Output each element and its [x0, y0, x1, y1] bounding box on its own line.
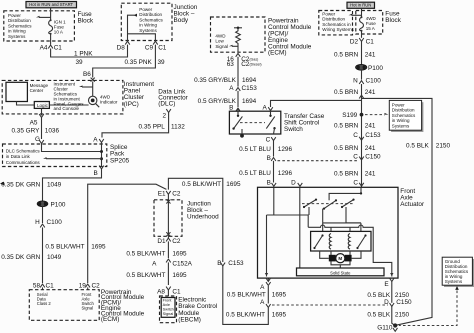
svg-text:0.5 BLK: 0.5 BLK — [367, 312, 390, 319]
svg-text:C153: C153 — [365, 132, 381, 139]
svg-text:D2: D2 — [350, 39, 359, 46]
svg-text:C100: C100 — [366, 78, 382, 85]
svg-text:241: 241 — [365, 122, 376, 129]
svg-text:Communications: Communications — [6, 160, 41, 165]
svg-text:B: B — [94, 170, 98, 177]
svg-text:Switch: Switch — [163, 307, 174, 311]
svg-text:A: A — [260, 284, 265, 291]
svg-text:Hot in RUN and START: Hot in RUN and START — [29, 2, 73, 7]
svg-text:C1: C1 — [366, 39, 375, 46]
svg-text:Systems: Systems — [8, 34, 26, 39]
svg-text:D: D — [291, 179, 296, 186]
svg-text:H: H — [35, 219, 40, 226]
svg-text:1694: 1694 — [242, 98, 257, 105]
svg-text:0.5 BRN: 0.5 BRN — [334, 89, 359, 96]
svg-text:D: D — [384, 299, 389, 306]
svg-text:B: B — [229, 105, 233, 112]
svg-text:Class 2: Class 2 — [37, 301, 52, 306]
svg-text:1049: 1049 — [47, 182, 62, 189]
svg-text:0.5 BLK/WHT: 0.5 BLK/WHT — [126, 250, 165, 257]
svg-text:C: C — [353, 132, 358, 139]
svg-text:0.5 BLK: 0.5 BLK — [406, 143, 429, 150]
svg-text:(Gas): (Gas) — [250, 58, 259, 62]
svg-text:Indicator: Indicator — [100, 100, 118, 105]
svg-text:1049: 1049 — [47, 254, 62, 261]
svg-text:58: 58 — [33, 282, 41, 289]
svg-text:Underhood: Underhood — [187, 214, 219, 221]
svg-text:(DLC): (DLC) — [158, 100, 175, 107]
svg-text:15 A: 15 A — [366, 26, 376, 31]
svg-text:Systems: Systems — [445, 279, 463, 284]
svg-text:P100: P100 — [51, 201, 66, 208]
svg-text:Solid State: Solid State — [330, 271, 351, 276]
svg-text:Signal: Signal — [163, 312, 174, 316]
svg-text:19: 19 — [79, 282, 87, 289]
svg-text:241: 241 — [365, 51, 376, 58]
svg-text:1694: 1694 — [242, 77, 257, 84]
svg-text:2150: 2150 — [395, 312, 410, 319]
svg-text:B: B — [267, 180, 271, 187]
svg-text:P100: P100 — [368, 65, 383, 72]
svg-text:C2: C2 — [92, 282, 101, 289]
svg-text:0.5 BRN: 0.5 BRN — [334, 122, 359, 129]
svg-text:Front: Front — [163, 299, 173, 303]
svg-text:39: 39 — [158, 59, 166, 66]
svg-text:0.5 BLK/WHT: 0.5 BLK/WHT — [45, 243, 84, 250]
svg-text:and Console: and Console — [54, 106, 80, 111]
svg-text:A: A — [260, 299, 265, 306]
svg-text:C153: C153 — [228, 260, 244, 267]
svg-text:DLC Schematics: DLC Schematics — [6, 149, 41, 154]
svg-text:D8: D8 — [117, 44, 126, 51]
svg-text:Switch: Switch — [284, 126, 303, 133]
svg-text:Logic: Logic — [37, 103, 49, 108]
svg-text:D1: D1 — [157, 238, 166, 245]
svg-text:Axle: Axle — [163, 303, 170, 307]
svg-text:0.35 GRY: 0.35 GRY — [11, 127, 40, 134]
svg-text:1695: 1695 — [226, 181, 241, 188]
svg-text:1695: 1695 — [272, 311, 287, 318]
svg-text:1 PNK: 1 PNK — [74, 51, 93, 58]
svg-text:1296: 1296 — [278, 146, 293, 153]
svg-text:B: B — [217, 260, 221, 267]
svg-text:1695: 1695 — [172, 250, 187, 257]
svg-text:10 A: 10 A — [54, 29, 64, 34]
svg-text:A: A — [263, 105, 268, 112]
svg-text:C1: C1 — [172, 288, 181, 295]
svg-text:Signal: Signal — [215, 44, 228, 49]
svg-text:0.5 BRN: 0.5 BRN — [334, 171, 359, 178]
svg-text:Block: Block — [385, 17, 401, 24]
svg-text:C9: C9 — [145, 44, 154, 51]
svg-text:2150: 2150 — [395, 292, 410, 299]
svg-text:1695: 1695 — [272, 291, 287, 298]
svg-text:0.5 LT BLU: 0.5 LT BLU — [239, 170, 271, 177]
svg-text:E1: E1 — [158, 191, 166, 198]
svg-text:Signal: Signal — [82, 306, 94, 311]
svg-text:0.5 BLK/WHT: 0.5 BLK/WHT — [182, 181, 221, 188]
svg-text:2: 2 — [162, 113, 166, 120]
svg-text:A8: A8 — [157, 288, 165, 295]
svg-text:0.5 BLK: 0.5 BLK — [367, 292, 390, 299]
svg-text:C100: C100 — [47, 219, 63, 226]
svg-text:0.5 BRN: 0.5 BRN — [334, 51, 359, 58]
svg-text:C1: C1 — [54, 44, 63, 51]
svg-text:M: M — [338, 256, 342, 261]
svg-text:(Diesel): (Diesel) — [250, 63, 262, 67]
svg-text:1695: 1695 — [172, 272, 187, 279]
svg-text:SP205: SP205 — [110, 158, 130, 165]
svg-text:1296: 1296 — [278, 170, 293, 177]
svg-text:0.35 GRY/BLK: 0.35 GRY/BLK — [194, 77, 237, 84]
svg-text:A: A — [229, 85, 234, 92]
svg-text:N: N — [353, 78, 358, 85]
svg-text:241: 241 — [365, 145, 376, 152]
svg-text:C: C — [353, 179, 358, 186]
svg-text:C150: C150 — [396, 299, 412, 306]
svg-text:C153: C153 — [242, 85, 258, 92]
svg-text:241: 241 — [365, 171, 376, 178]
svg-text:A: A — [93, 137, 98, 144]
svg-text:0.5 LT BLU: 0.5 LT BLU — [239, 146, 271, 153]
svg-text:0.35 DK GRN: 0.35 DK GRN — [1, 182, 40, 189]
svg-text:C152A: C152A — [172, 261, 192, 268]
svg-text:1036: 1036 — [45, 127, 60, 134]
svg-text:(ECM): (ECM) — [101, 316, 119, 323]
svg-text:0.5 BLK/WHT: 0.5 BLK/WHT — [226, 311, 265, 318]
svg-text:0.5 BRN: 0.5 BRN — [334, 145, 359, 152]
svg-text:G110: G110 — [377, 324, 393, 331]
svg-text:Systems: Systems — [392, 123, 410, 128]
svg-text:Center: Center — [30, 88, 44, 93]
svg-text:B: B — [267, 155, 271, 162]
svg-text:S199: S199 — [342, 112, 357, 119]
svg-text:C: C — [353, 153, 358, 160]
svg-text:241: 241 — [365, 89, 376, 96]
svg-text:A4: A4 — [40, 44, 48, 51]
svg-text:C2: C2 — [172, 238, 181, 245]
svg-text:A5: A5 — [30, 119, 38, 126]
svg-text:(ECM): (ECM) — [268, 50, 286, 57]
svg-text:C2: C2 — [172, 191, 181, 198]
svg-text:A: A — [152, 261, 157, 268]
svg-text:(IPC): (IPC) — [124, 101, 139, 108]
svg-text:Wiring Systems: Wiring Systems — [322, 27, 354, 32]
svg-text:E: E — [384, 281, 388, 288]
svg-text:C1: C1 — [158, 44, 167, 51]
svg-text:C1: C1 — [46, 282, 55, 289]
svg-text:C150: C150 — [365, 153, 381, 160]
svg-text:63: 63 — [227, 61, 235, 68]
svg-text:1132: 1132 — [171, 123, 185, 130]
svg-text:2150: 2150 — [436, 143, 451, 150]
svg-text:in Data Link: in Data Link — [6, 154, 31, 159]
svg-text:Body: Body — [174, 17, 189, 24]
svg-text:C: C — [266, 136, 271, 143]
svg-text:0.35 PPL: 0.35 PPL — [139, 123, 166, 130]
svg-text:1695: 1695 — [91, 243, 106, 250]
svg-text:0.5 BLK/WHT: 0.5 BLK/WHT — [227, 291, 266, 298]
svg-text:Systems: Systems — [139, 28, 157, 33]
svg-text:0.35 PNK: 0.35 PNK — [124, 59, 152, 66]
svg-text:39: 39 — [76, 59, 84, 66]
svg-text:(EBCM): (EBCM) — [178, 317, 201, 324]
svg-text:Hot in RUN: Hot in RUN — [350, 3, 371, 8]
svg-text:B6: B6 — [83, 71, 91, 78]
svg-text:G: G — [35, 136, 40, 143]
svg-text:Actuator: Actuator — [400, 201, 425, 208]
svg-text:Block: Block — [78, 17, 94, 24]
svg-text:0.5 BLK/WHT: 0.5 BLK/WHT — [126, 272, 165, 279]
svg-text:0.35 DK GRN: 0.35 DK GRN — [1, 254, 40, 261]
